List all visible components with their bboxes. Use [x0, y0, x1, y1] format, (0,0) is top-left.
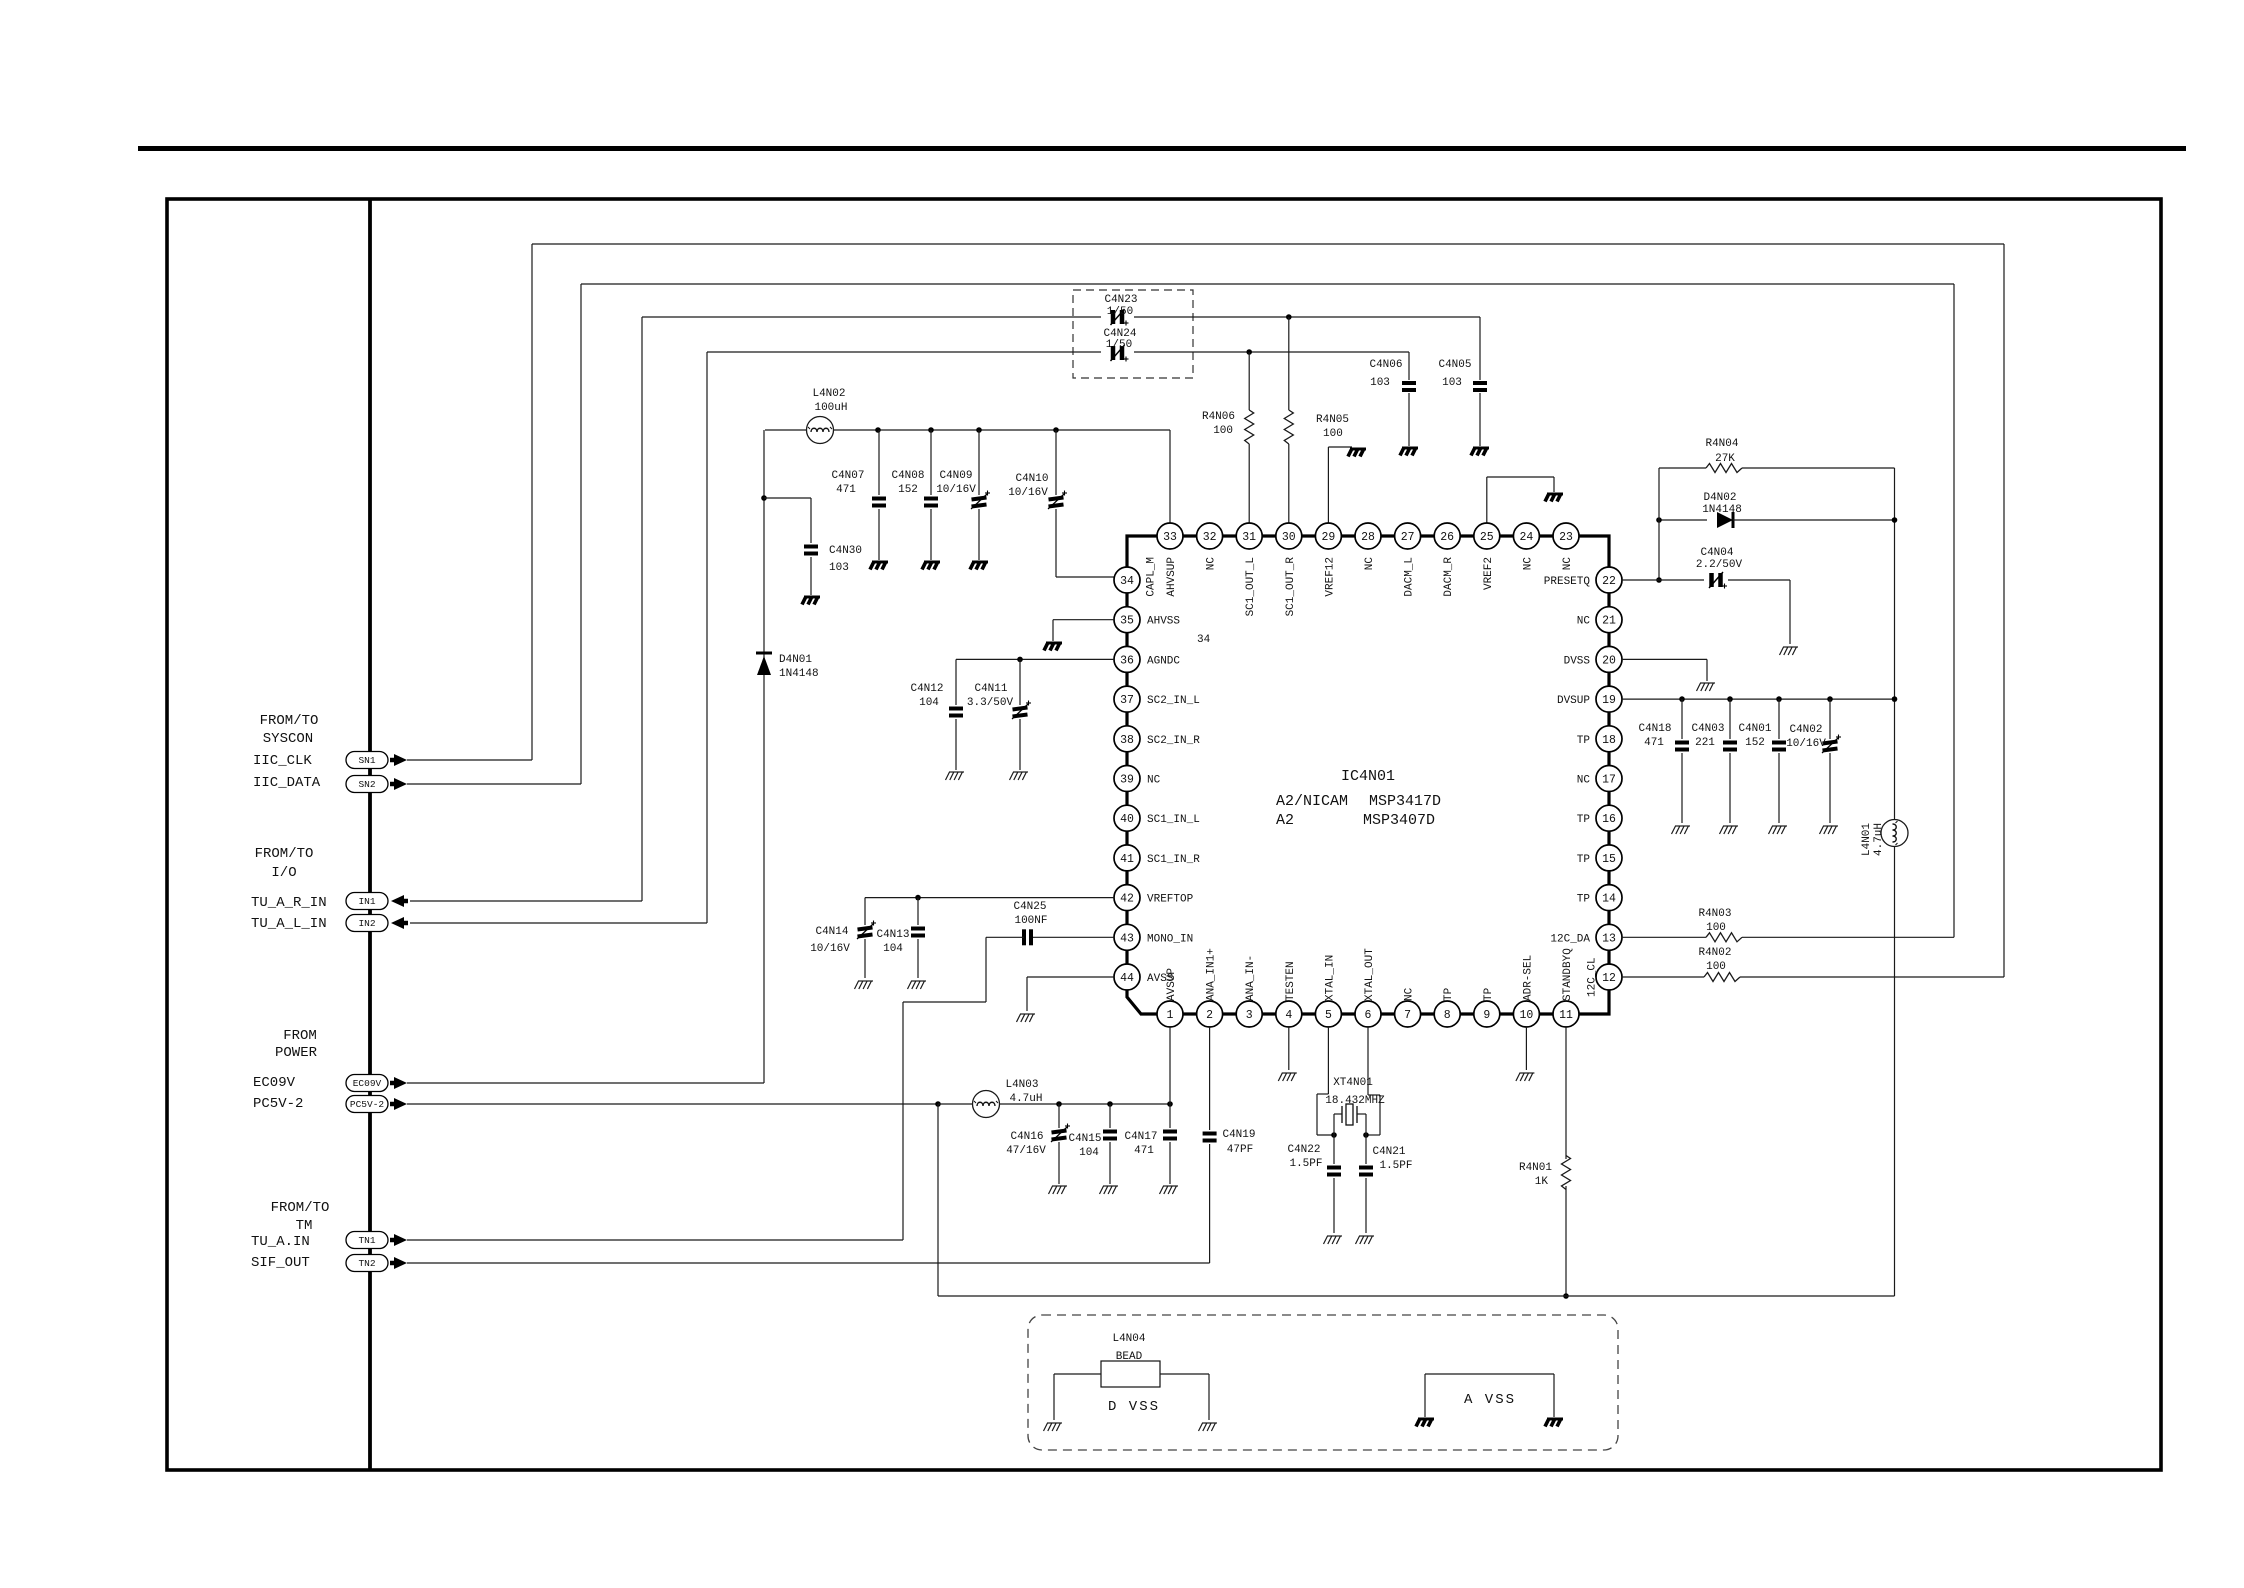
svg-text:2.2/50V: 2.2/50V: [1696, 559, 1743, 571]
svg-text:DVSS: DVSS: [1564, 655, 1591, 667]
svg-text:L4N04: L4N04: [1112, 1333, 1145, 1345]
svg-text:36: 36: [1120, 654, 1134, 667]
svg-text:AVSUP: AVSUP: [1166, 968, 1178, 1001]
svg-text:7: 7: [1404, 1009, 1411, 1022]
svg-text:104: 104: [1079, 1147, 1099, 1159]
svg-text:21: 21: [1602, 615, 1616, 628]
svg-text:100uH: 100uH: [814, 402, 847, 414]
svg-text:C4N02: C4N02: [1789, 724, 1822, 736]
svg-text:IN1: IN1: [358, 896, 375, 907]
svg-text:PC5V-2: PC5V-2: [350, 1099, 385, 1110]
svg-text:4.7uH: 4.7uH: [1009, 1093, 1042, 1105]
svg-text:C4N25: C4N25: [1013, 901, 1046, 913]
svg-text:29: 29: [1321, 531, 1335, 544]
svg-text:SN2: SN2: [358, 779, 375, 790]
svg-text:471: 471: [1644, 737, 1664, 749]
svg-text:8: 8: [1444, 1009, 1451, 1022]
svg-text:15: 15: [1602, 853, 1616, 866]
svg-text:NC: NC: [1577, 775, 1591, 787]
svg-text:C4N03: C4N03: [1691, 723, 1724, 735]
svg-text:11: 11: [1559, 1009, 1573, 1022]
svg-text:TU_A_R_IN: TU_A_R_IN: [251, 895, 327, 911]
svg-text:CAPL_M: CAPL_M: [1146, 557, 1158, 597]
svg-text:SC2_IN_L: SC2_IN_L: [1147, 695, 1200, 707]
svg-text:XTAL_IN: XTAL_IN: [1324, 955, 1336, 1001]
svg-text:AHVSS: AHVSS: [1147, 616, 1180, 628]
svg-text:14: 14: [1602, 893, 1616, 906]
svg-text:43: 43: [1120, 932, 1134, 945]
svg-text:C4N08: C4N08: [891, 470, 924, 482]
svg-text:103: 103: [1370, 377, 1390, 389]
svg-text:44: 44: [1120, 972, 1134, 985]
svg-text:C4N04: C4N04: [1700, 547, 1733, 559]
svg-text:35: 35: [1120, 615, 1134, 628]
svg-text:47/16V: 47/16V: [1006, 1145, 1046, 1157]
svg-text:D4N02: D4N02: [1703, 492, 1736, 504]
svg-text:SC2_IN_R: SC2_IN_R: [1147, 735, 1200, 747]
svg-text:1N4148: 1N4148: [1702, 504, 1742, 516]
svg-text:L4N02: L4N02: [812, 388, 845, 400]
svg-text:D VSS: D VSS: [1108, 1399, 1160, 1415]
svg-text:NC: NC: [1147, 775, 1161, 787]
svg-text:C4N06: C4N06: [1369, 359, 1402, 371]
svg-text:TESTEN: TESTEN: [1285, 961, 1297, 1001]
svg-text:MSP3407D: MSP3407D: [1363, 812, 1435, 829]
svg-text:A2/NICAM: A2/NICAM: [1276, 793, 1348, 810]
svg-text:1N4148: 1N4148: [779, 668, 819, 680]
svg-text:TP: TP: [1577, 735, 1591, 747]
svg-text:152: 152: [1745, 737, 1765, 749]
svg-text:IC4N01: IC4N01: [1341, 768, 1395, 785]
svg-text:221: 221: [1695, 737, 1715, 749]
svg-text:TP: TP: [1483, 987, 1495, 1001]
svg-text:39: 39: [1120, 774, 1134, 787]
svg-text:103: 103: [829, 562, 849, 574]
svg-text:SIF_OUT: SIF_OUT: [251, 1255, 310, 1271]
svg-text:R4N06: R4N06: [1202, 411, 1235, 423]
svg-text:22: 22: [1602, 575, 1616, 588]
svg-text:12: 12: [1602, 972, 1616, 985]
svg-text:R4N03: R4N03: [1698, 908, 1731, 920]
svg-text:SYSCON: SYSCON: [263, 731, 313, 747]
svg-text:25: 25: [1480, 531, 1494, 544]
svg-text:TM: TM: [296, 1218, 313, 1234]
svg-text:152: 152: [898, 484, 918, 496]
svg-text:1: 1: [1167, 1009, 1174, 1022]
svg-text:C4N22: C4N22: [1287, 1144, 1320, 1156]
svg-text:C4N15: C4N15: [1068, 1133, 1101, 1145]
svg-text:103: 103: [1442, 377, 1462, 389]
svg-text:STANDBYQ: STANDBYQ: [1562, 948, 1574, 1001]
svg-text:PRESETQ: PRESETQ: [1544, 576, 1591, 588]
svg-text:VREF2: VREF2: [1483, 557, 1495, 590]
svg-text:1.5PF: 1.5PF: [1379, 1160, 1412, 1172]
svg-text:R4N02: R4N02: [1698, 947, 1731, 959]
svg-text:C4N01: C4N01: [1738, 723, 1771, 735]
svg-text:NC: NC: [1206, 557, 1218, 571]
svg-text:104: 104: [883, 943, 903, 955]
svg-text:41: 41: [1120, 853, 1134, 866]
svg-text:NC: NC: [1577, 616, 1591, 628]
svg-text:C4N13: C4N13: [876, 929, 909, 941]
svg-text:IN2: IN2: [358, 918, 375, 929]
svg-text:EC09V: EC09V: [253, 1075, 296, 1091]
svg-text:42: 42: [1120, 893, 1134, 906]
svg-text:18: 18: [1602, 734, 1616, 747]
svg-text:SC1_IN_R: SC1_IN_R: [1147, 854, 1200, 866]
svg-text:SC1_IN_L: SC1_IN_L: [1147, 814, 1200, 826]
svg-text:19: 19: [1602, 694, 1616, 707]
svg-text:33: 33: [1163, 531, 1177, 544]
svg-text:27: 27: [1401, 531, 1415, 544]
svg-text:34: 34: [1120, 575, 1134, 588]
svg-text:100: 100: [1323, 428, 1343, 440]
svg-text:ANA_IN-: ANA_IN-: [1245, 955, 1257, 1001]
svg-text:R4N05: R4N05: [1316, 414, 1349, 426]
svg-text:SC1_OUT_L: SC1_OUT_L: [1245, 557, 1257, 616]
svg-text:C4N17: C4N17: [1124, 1131, 1157, 1143]
svg-text:6: 6: [1365, 1009, 1372, 1022]
svg-text:NC: NC: [1562, 557, 1574, 571]
svg-text:1.5PF: 1.5PF: [1289, 1158, 1322, 1170]
svg-text:C4N14: C4N14: [815, 926, 848, 938]
svg-text:100: 100: [1213, 425, 1233, 437]
svg-text:3: 3: [1246, 1009, 1253, 1022]
svg-text:10: 10: [1519, 1009, 1533, 1022]
svg-text:34: 34: [1197, 634, 1211, 646]
svg-text:104: 104: [919, 697, 939, 709]
svg-text:EC09V: EC09V: [353, 1078, 382, 1089]
svg-text:18.432MHZ: 18.432MHZ: [1325, 1095, 1385, 1107]
svg-text:100: 100: [1706, 922, 1726, 934]
svg-text:ADR-SEL: ADR-SEL: [1522, 955, 1534, 1001]
svg-text:1/50: 1/50: [1107, 306, 1133, 318]
svg-text:L4N01: L4N01: [1861, 823, 1873, 856]
svg-text:10/16V: 10/16V: [1786, 738, 1826, 750]
svg-text:FROM: FROM: [283, 1028, 317, 1044]
svg-text:R4N01: R4N01: [1519, 1162, 1552, 1174]
svg-text:IIC_CLK: IIC_CLK: [253, 753, 312, 769]
svg-text:C4N23: C4N23: [1104, 294, 1137, 306]
svg-text:A VSS: A VSS: [1464, 1392, 1516, 1408]
svg-text:5: 5: [1325, 1009, 1332, 1022]
svg-text:100NF: 100NF: [1014, 915, 1047, 927]
svg-text:AGNDC: AGNDC: [1147, 655, 1180, 667]
svg-text:C4N18: C4N18: [1638, 723, 1671, 735]
svg-text:IIC_DATA: IIC_DATA: [253, 775, 321, 791]
svg-text:ANA_IN1+: ANA_IN1+: [1206, 948, 1218, 1001]
svg-text:C4N05: C4N05: [1438, 359, 1471, 371]
svg-text:C4N09: C4N09: [939, 470, 972, 482]
svg-text:C4N21: C4N21: [1372, 1146, 1405, 1158]
svg-text:MSP3417D: MSP3417D: [1369, 793, 1441, 810]
svg-text:VREFTOP: VREFTOP: [1147, 894, 1194, 906]
svg-text:23: 23: [1559, 531, 1573, 544]
svg-text:NC: NC: [1364, 557, 1376, 571]
svg-text:C4N07: C4N07: [831, 470, 864, 482]
svg-text:12C_DA: 12C_DA: [1550, 933, 1590, 945]
svg-text:40: 40: [1120, 813, 1134, 826]
svg-text:30: 30: [1282, 531, 1296, 544]
svg-text:47PF: 47PF: [1227, 1144, 1253, 1156]
svg-text:VREF12: VREF12: [1324, 557, 1336, 597]
svg-text:TP: TP: [1443, 987, 1455, 1001]
svg-text:100: 100: [1706, 961, 1726, 973]
svg-text:L4N03: L4N03: [1005, 1079, 1038, 1091]
svg-text:4: 4: [1285, 1009, 1292, 1022]
svg-text:24: 24: [1519, 531, 1533, 544]
svg-text:4.7uH: 4.7uH: [1873, 823, 1885, 856]
svg-text:31: 31: [1242, 531, 1256, 544]
svg-text:12C_CL: 12C_CL: [1587, 957, 1599, 997]
svg-text:C4N30: C4N30: [829, 545, 862, 557]
svg-text:FROM/TO: FROM/TO: [271, 1200, 330, 1216]
svg-text:38: 38: [1120, 734, 1134, 747]
svg-text:37: 37: [1120, 694, 1134, 707]
svg-text:SN1: SN1: [358, 755, 375, 766]
svg-text:POWER: POWER: [275, 1045, 318, 1061]
svg-text:17: 17: [1602, 774, 1616, 787]
svg-text:16: 16: [1602, 813, 1616, 826]
svg-text:2: 2: [1206, 1009, 1213, 1022]
svg-text:DACM_L: DACM_L: [1404, 557, 1416, 597]
svg-text:C4N16: C4N16: [1010, 1131, 1043, 1143]
svg-text:XTAL_OUT: XTAL_OUT: [1364, 948, 1376, 1001]
svg-text:SC1_OUT_R: SC1_OUT_R: [1285, 557, 1297, 617]
svg-text:TN2: TN2: [358, 1258, 375, 1269]
svg-text:FROM/TO: FROM/TO: [260, 713, 319, 729]
svg-text:3.3/50V: 3.3/50V: [967, 697, 1014, 709]
svg-text:20: 20: [1602, 654, 1616, 667]
svg-text:NC: NC: [1522, 557, 1534, 571]
svg-text:AHVSUP: AHVSUP: [1166, 557, 1178, 597]
svg-text:R4N04: R4N04: [1705, 438, 1738, 450]
svg-text:471: 471: [836, 484, 856, 496]
svg-text:C4N11: C4N11: [974, 683, 1007, 695]
svg-text:I/O: I/O: [271, 865, 296, 881]
svg-text:13: 13: [1602, 932, 1616, 945]
svg-text:28: 28: [1361, 531, 1375, 544]
svg-text:TP: TP: [1577, 854, 1591, 866]
svg-text:FROM/TO: FROM/TO: [255, 846, 314, 862]
svg-text:9: 9: [1483, 1009, 1490, 1022]
svg-text:10/16V: 10/16V: [936, 484, 976, 496]
svg-text:TU_A_L_IN: TU_A_L_IN: [251, 916, 327, 932]
svg-text:1K: 1K: [1535, 1176, 1549, 1188]
svg-text:TN1: TN1: [358, 1235, 375, 1246]
svg-text:NC: NC: [1404, 987, 1416, 1001]
svg-text:DVSUP: DVSUP: [1557, 695, 1590, 707]
svg-text:DACM_R: DACM_R: [1443, 557, 1455, 597]
svg-text:C4N12: C4N12: [910, 683, 943, 695]
svg-text:26: 26: [1440, 531, 1454, 544]
svg-text:XT4N01: XT4N01: [1333, 1077, 1373, 1089]
svg-text:C4N10: C4N10: [1015, 473, 1048, 485]
svg-text:27K: 27K: [1715, 453, 1735, 465]
svg-text:PC5V-2: PC5V-2: [253, 1096, 303, 1112]
svg-text:TU_A.IN: TU_A.IN: [251, 1234, 310, 1250]
svg-text:C4N19: C4N19: [1222, 1129, 1255, 1141]
svg-text:MONO_IN: MONO_IN: [1147, 933, 1193, 945]
svg-text:TP: TP: [1577, 894, 1591, 906]
svg-text:D4N01: D4N01: [779, 654, 812, 666]
svg-text:10/16V: 10/16V: [810, 943, 850, 955]
svg-text:TP: TP: [1577, 814, 1591, 826]
svg-text:32: 32: [1203, 531, 1217, 544]
svg-text:10/16V: 10/16V: [1008, 487, 1048, 499]
svg-text:A2: A2: [1276, 812, 1294, 829]
svg-text:471: 471: [1134, 1145, 1154, 1157]
svg-text:1/50: 1/50: [1106, 339, 1132, 351]
